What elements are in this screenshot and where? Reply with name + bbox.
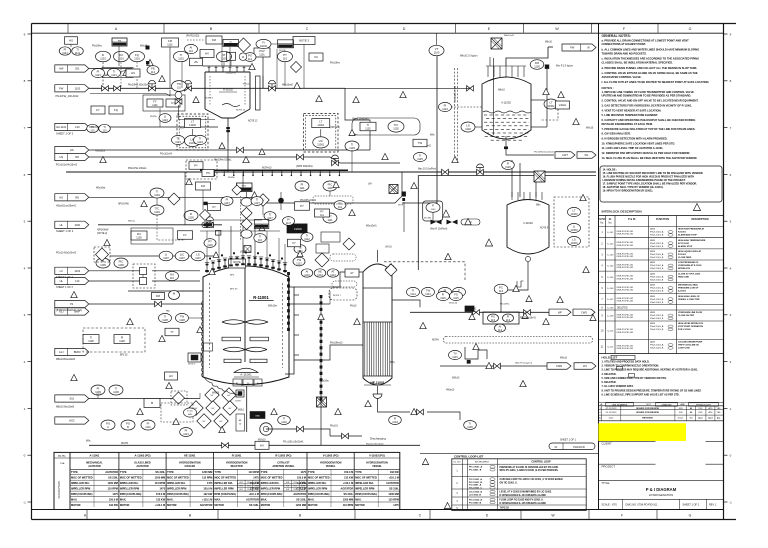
svg-text:TW: TW bbox=[180, 314, 185, 318]
svg-text:0708-PO-PID-101: 0708-PO-PID-101 bbox=[617, 276, 634, 278]
svg-text:FI: FI bbox=[394, 416, 397, 420]
svg-text:0708-PO-PID-101: 0708-PO-PID-101 bbox=[617, 231, 634, 233]
svg-text:TI: TI bbox=[412, 288, 415, 292]
svg-text:IMPELLER DIA.: IMPELLER DIA. bbox=[308, 481, 327, 485]
svg-text:RPM (COUPLING): RPM (COUPLING) bbox=[261, 492, 283, 496]
svg-text:PSwT-1001_A: PSwT-1001_A bbox=[650, 275, 664, 278]
svg-text:6. DELETED.: 6. DELETED. bbox=[602, 381, 617, 384]
svg-text:PI: PI bbox=[147, 421, 150, 425]
svg-text:HIGH HIGH LEVEL OF: HIGH HIGH LEVEL OF bbox=[678, 296, 700, 298]
svg-text:TI: TI bbox=[103, 125, 106, 129]
svg-text:1101: 1101 bbox=[178, 57, 184, 61]
svg-text:IL-108: IL-108 bbox=[607, 307, 614, 309]
svg-text:2. VENDOR TO CONFIRM NOZZLE OR: 2. VENDOR TO CONFIRM NOZZLE ORIENTATION. bbox=[602, 364, 660, 367]
svg-text:1113: 1113 bbox=[330, 273, 336, 277]
svg-text:FY: FY bbox=[153, 99, 157, 103]
svg-text:TV-11001_A: TV-11001_A bbox=[469, 484, 482, 487]
svg-text:4. DELETED.: 4. DELETED. bbox=[602, 373, 617, 376]
svg-text:11001: 11001 bbox=[317, 124, 324, 127]
svg-text:MBx103Gw10wt0: MBx103Gw10wt0 bbox=[56, 358, 76, 361]
svg-text:SHEET 1 OF 2: SHEET 1 OF 2 bbox=[56, 132, 74, 136]
svg-text:PGx101x04: PGx101x04 bbox=[160, 154, 173, 156]
svg-text:1475: 1475 bbox=[253, 477, 259, 480]
svg-text:FEED LINE: FEED LINE bbox=[678, 276, 689, 278]
svg-text:MECHANICAL: MECHANICAL bbox=[86, 461, 103, 464]
svg-text:MOC OF WETTED: MOC OF WETTED bbox=[167, 476, 189, 480]
svg-text:PSwT-1001_A: PSwT-1001_A bbox=[650, 325, 664, 328]
svg-text:U/A: U/A bbox=[368, 183, 372, 186]
svg-text:TI: TI bbox=[199, 136, 202, 140]
svg-text:RPM (COUPLING): RPM (COUPLING) bbox=[355, 492, 377, 496]
svg-text:11303: 11303 bbox=[570, 212, 578, 216]
svg-text:ROM: ROM bbox=[255, 482, 260, 484]
svg-text:+110.1 M: +110.1 M bbox=[343, 482, 353, 485]
svg-text:P1: P1 bbox=[70, 302, 74, 306]
svg-text:PY: PY bbox=[320, 209, 324, 213]
svg-text:PG: PG bbox=[126, 421, 130, 425]
svg-text:11001: 11001 bbox=[317, 142, 325, 146]
svg-text:HYDROGENATION: HYDROGENATION bbox=[226, 461, 248, 464]
svg-text:ZS: ZS bbox=[194, 60, 198, 64]
svg-text:XSwT-1001_B: XSwT-1001_B bbox=[650, 302, 664, 304]
svg-text:BPZ 03: BPZ 03 bbox=[230, 289, 238, 291]
svg-text:HS: HS bbox=[59, 155, 63, 159]
svg-text:P6x10: P6x10 bbox=[350, 306, 357, 308]
svg-text:V-11003 (PG): V-11003 (PG) bbox=[369, 454, 385, 458]
svg-text:M6x10: M6x10 bbox=[498, 90, 506, 92]
svg-text:W07Hr: W07Hr bbox=[150, 115, 157, 118]
svg-text:XSwT-1001_B: XSwT-1001_B bbox=[650, 329, 664, 331]
svg-text:1128: 1128 bbox=[162, 318, 168, 322]
svg-text:NO TAG: NO TAG bbox=[424, 217, 432, 220]
svg-text:FI: FI bbox=[507, 161, 510, 165]
svg-text:LSHH: LSHH bbox=[559, 103, 566, 107]
svg-text:G: G bbox=[689, 514, 692, 518]
svg-text:FI: FI bbox=[442, 292, 445, 296]
svg-text:111: 111 bbox=[338, 205, 342, 209]
svg-text:HIGH LEVEL INTERLOCK: HIGH LEVEL INTERLOCK bbox=[678, 323, 704, 325]
svg-text:TI: TI bbox=[419, 153, 422, 157]
svg-text:HS: HS bbox=[69, 39, 73, 43]
svg-text:TOWARD DRAIN AND NO POCKETS.: TOWARD DRAIN AND NO POCKETS. bbox=[602, 51, 648, 55]
svg-text:W6s10wt0: W6s10wt0 bbox=[282, 84, 293, 87]
svg-text:1114: 1114 bbox=[410, 292, 416, 296]
svg-text:BPZ 02: BPZ 02 bbox=[120, 355, 128, 357]
svg-text:NOTE 3: NOTE 3 bbox=[188, 364, 196, 366]
svg-text:No.: No. bbox=[600, 223, 604, 225]
svg-text:RD: RD bbox=[75, 155, 79, 159]
svg-text:10x25x41: 10x25x41 bbox=[226, 73, 237, 75]
svg-text:1108: 1108 bbox=[119, 340, 125, 343]
svg-text:1475: 1475 bbox=[207, 482, 213, 485]
svg-text:SS 316L: SS 316L bbox=[108, 477, 118, 480]
svg-text:RD: RD bbox=[75, 196, 79, 200]
svg-text:1107: 1107 bbox=[195, 256, 201, 260]
svg-text:MOC OF WETTED: MOC OF WETTED bbox=[355, 476, 377, 480]
svg-text:HG2: HG2 bbox=[69, 419, 75, 423]
svg-text:ASSOCIATED CONTROL VALVE.: ASSOCIATED CONTROL VALVE. bbox=[602, 75, 642, 79]
svg-text:IMPELLER DIA.: IMPELLER DIA. bbox=[71, 481, 90, 485]
svg-text:132 KW: 132 KW bbox=[344, 477, 354, 480]
svg-text:NOTE: NOTE bbox=[236, 401, 242, 403]
svg-text:Appd: Appd bbox=[708, 416, 712, 419]
svg-text:XY: XY bbox=[212, 205, 216, 209]
svg-text:HL: HL bbox=[60, 223, 64, 227]
svg-text:CWR: CWR bbox=[556, 364, 562, 368]
svg-text:111: 111 bbox=[320, 214, 324, 217]
svg-text:110: 110 bbox=[90, 129, 95, 133]
svg-text:PSwT-1001_A: PSwT-1001_A bbox=[650, 344, 664, 347]
svg-text:FM: FM bbox=[535, 61, 540, 65]
svg-text:(NOTE): (NOTE) bbox=[279, 50, 286, 52]
svg-text:ON TIC-11001_A.: ON TIC-11001_A. bbox=[500, 481, 518, 484]
svg-text:P6x10Hw: P6x10Hw bbox=[330, 63, 340, 65]
svg-text:1200 MM: 1200 MM bbox=[343, 498, 353, 501]
svg-text:NOTE 3: NOTE 3 bbox=[299, 39, 310, 43]
svg-text:PI: PI bbox=[97, 69, 100, 73]
svg-text:112: 112 bbox=[151, 70, 156, 74]
svg-text:P6x101: P6x101 bbox=[330, 426, 339, 428]
svg-text:110 RPM: 110 RPM bbox=[389, 498, 399, 501]
svg-text:150.0 M: 150.0 M bbox=[297, 477, 306, 480]
svg-text:1101: 1101 bbox=[167, 43, 173, 46]
svg-text:VESSEL: VESSEL bbox=[372, 465, 382, 468]
svg-text:I-101: I-101 bbox=[650, 240, 656, 242]
svg-text:CLIENT: CLIENT bbox=[602, 442, 613, 446]
svg-text:NOTE 12: NOTE 12 bbox=[236, 110, 246, 112]
svg-text:TYPE: TYPE bbox=[261, 470, 268, 474]
svg-text:11302: 11302 bbox=[547, 104, 555, 108]
svg-text:-1: -1 bbox=[729, 500, 732, 504]
svg-text:IMPELLER RPM: IMPELLER RPM bbox=[355, 487, 374, 491]
svg-text:113: 113 bbox=[506, 318, 511, 322]
svg-text:HV: HV bbox=[169, 374, 173, 378]
svg-text:FM: FM bbox=[201, 184, 206, 188]
svg-text:113: 113 bbox=[491, 318, 496, 322]
svg-text:0708-PO-PID-101: 0708-PO-PID-101 bbox=[617, 253, 634, 255]
svg-text:PI: PI bbox=[287, 217, 290, 221]
svg-text:0708-PO-PID-101: 0708-PO-PID-101 bbox=[617, 264, 634, 266]
svg-text:NOTE 9: NOTE 9 bbox=[540, 228, 549, 230]
svg-text:XY: XY bbox=[292, 241, 296, 245]
svg-text:5. LINE MOUNTED TEMPERATURE E: 5. LINE MOUNTED TEMPERATURE ELEMENT. bbox=[602, 113, 659, 117]
svg-text:PSwT-1001_A: PSwT-1001_A bbox=[650, 298, 664, 301]
svg-text:FM100: FM100 bbox=[294, 228, 302, 231]
svg-text:1115: 1115 bbox=[453, 296, 459, 300]
svg-text:TW: TW bbox=[418, 141, 423, 145]
svg-text:NOTES :: NOTES : bbox=[602, 86, 615, 90]
svg-text:LT: LT bbox=[572, 208, 575, 212]
svg-text:PIC: PIC bbox=[328, 182, 333, 186]
svg-text:A1J: A1J bbox=[59, 350, 64, 354]
svg-text:W6s10: W6s10 bbox=[212, 393, 220, 395]
svg-text:110 RPM: 110 RPM bbox=[202, 477, 212, 480]
svg-text:AGITATOR: AGITATOR bbox=[386, 482, 399, 485]
svg-text:201: 201 bbox=[75, 67, 80, 71]
svg-text:I-101: I-101 bbox=[650, 251, 656, 253]
svg-text:MOC OF WETTED: MOC OF WETTED bbox=[120, 476, 142, 480]
svg-text:110 RPM: 110 RPM bbox=[343, 504, 353, 507]
svg-text:ISSUED FOR REVIEW: ISSUED FOR REVIEW bbox=[636, 412, 660, 414]
svg-text:0708-PO-PID-101: 0708-PO-PID-101 bbox=[617, 314, 634, 316]
svg-text:(NOTE 2): (NOTE 2) bbox=[97, 232, 107, 235]
svg-text:VESSEL: VESSEL bbox=[326, 465, 336, 468]
svg-text:M6x10 2.0 kg/cm: M6x10 2.0 kg/cm bbox=[460, 56, 478, 58]
svg-text:TI: TI bbox=[367, 123, 370, 127]
svg-text:HOLD LIST: HOLD LIST bbox=[602, 356, 618, 360]
svg-text:V-11003: V-11003 bbox=[523, 221, 533, 225]
svg-text:MGk1: MGk1 bbox=[238, 410, 245, 412]
svg-text:150.0 M: 150.0 M bbox=[344, 471, 353, 474]
svg-text:M6x10x41: M6x10x41 bbox=[504, 35, 515, 37]
svg-text:SS 316L: SS 316L bbox=[389, 488, 399, 491]
svg-text:AE: AE bbox=[318, 269, 322, 273]
svg-text:PS: PS bbox=[206, 171, 210, 175]
svg-text:WF: WF bbox=[558, 311, 562, 315]
svg-text:0708-PO-PID-102: 0708-PO-PID-102 bbox=[617, 256, 634, 258]
svg-text:FOR V-11003: FOR V-11003 bbox=[678, 329, 691, 331]
svg-text:a. PROVIDE ALL DRAIN CONNECTIO: a. PROVIDE ALL DRAIN CONNECTIONS AT LOWE… bbox=[602, 38, 690, 42]
svg-text:13. SEAL FLUSH PLAN SHALL BE F: 13. SEAL FLUSH PLAN SHALL BE FINALIZED W… bbox=[602, 156, 698, 160]
svg-text:MOTOR: MOTOR bbox=[167, 503, 177, 507]
svg-text:HS: HS bbox=[131, 71, 135, 75]
svg-text:C10: C10 bbox=[75, 125, 80, 129]
svg-text:132 KW: 132 KW bbox=[156, 498, 166, 501]
svg-text:FIC-11001_B: FIC-11001_B bbox=[469, 482, 482, 484]
svg-text:App: App bbox=[717, 416, 720, 419]
svg-text:LIC: LIC bbox=[319, 139, 323, 143]
svg-text:1113: 1113 bbox=[317, 273, 323, 277]
svg-text:IL-106: IL-106 bbox=[607, 288, 614, 290]
svg-text:P6x10Hw 100wt1: P6x10Hw 100wt1 bbox=[214, 159, 232, 162]
svg-text:0708-PO-PID-102: 0708-PO-PID-102 bbox=[617, 278, 634, 280]
svg-text:1141: 1141 bbox=[62, 51, 68, 55]
svg-text:TI: TI bbox=[76, 47, 79, 51]
svg-text:ROM: ROM bbox=[301, 489, 306, 491]
svg-text:1115: 1115 bbox=[440, 296, 446, 300]
svg-text:AY: AY bbox=[350, 271, 354, 275]
svg-text:HWte10: HWte10 bbox=[446, 389, 455, 392]
svg-text:19. NPSH TO HYDROGENATION (R-1: 19. NPSH TO HYDROGENATION (R-11001). bbox=[603, 189, 654, 192]
svg-text:1106: 1106 bbox=[100, 263, 106, 267]
svg-text:TI: TI bbox=[180, 53, 183, 57]
svg-text:1124: 1124 bbox=[442, 107, 448, 111]
svg-text:113: 113 bbox=[498, 328, 503, 332]
svg-text:1125: 1125 bbox=[417, 157, 423, 161]
svg-text:1107: 1107 bbox=[163, 256, 169, 260]
svg-text:IMPELLER RPM: IMPELLER RPM bbox=[261, 487, 280, 491]
svg-text:PSwT-1001_A: PSwT-1001_A bbox=[650, 314, 664, 317]
svg-text:PW: PW bbox=[59, 87, 64, 91]
svg-text:I-101: I-101 bbox=[650, 342, 656, 344]
svg-text:ALARM AND STOP: ALARM AND STOP bbox=[678, 234, 697, 237]
svg-text:MOC OF WETTED: MOC OF WETTED bbox=[214, 476, 236, 480]
svg-text:R-11001: R-11001 bbox=[253, 295, 269, 300]
svg-text:TI: TI bbox=[90, 335, 93, 339]
svg-text:1128: 1128 bbox=[179, 318, 185, 322]
svg-text:9. LINE SCHEDULE, PIPE SUPPORT: 9. LINE SCHEDULE, PIPE SUPPORT AND VALVE… bbox=[602, 394, 680, 397]
svg-text:FI: FI bbox=[507, 314, 510, 318]
svg-text:I/L: I/L bbox=[609, 218, 612, 221]
svg-text:PSwT-1001_A: PSwT-1001_A bbox=[650, 253, 664, 256]
svg-text:ALARM, STOP: ALARM, STOP bbox=[678, 245, 693, 248]
svg-text:GENERAL NOTES:: GENERAL NOTES: bbox=[602, 34, 631, 38]
svg-text:SHEET 1 OF 1: SHEET 1 OF 1 bbox=[560, 438, 577, 441]
svg-text:IL-107: IL-107 bbox=[607, 299, 614, 301]
svg-text:W6s10w: W6s10w bbox=[320, 381, 329, 383]
svg-text:LOW FLOW: LOW FLOW bbox=[678, 348, 690, 350]
svg-text:R-11002: R-11002 bbox=[223, 88, 233, 92]
svg-text:10: 10 bbox=[239, 424, 241, 426]
svg-text:INTERLOCK DESCRIPTION: INTERLOCK DESCRIPTION bbox=[602, 210, 643, 214]
svg-text:ISSUED FOR REVIEW: ISSUED FOR REVIEW bbox=[636, 408, 660, 410]
svg-text:XSwT-1001_B: XSwT-1001_B bbox=[650, 268, 664, 270]
svg-text:1114: 1114 bbox=[425, 292, 431, 296]
svg-text:CASCADE LOOP TIC-11001 / FIC-1: CASCADE LOOP TIC-11001 / FIC-11001_A TV-… bbox=[500, 478, 564, 481]
svg-text:1112: 1112 bbox=[304, 237, 310, 241]
svg-text:1100: 1100 bbox=[434, 51, 440, 55]
svg-text:A-11001: A-11001 bbox=[240, 373, 252, 377]
svg-text:INSTRUMENT: INSTRUMENT bbox=[475, 462, 490, 464]
svg-text:BMP2: BMP2 bbox=[74, 350, 82, 354]
svg-text:G: G bbox=[689, 27, 692, 31]
svg-text:MOC OF WETTED: MOC OF WETTED bbox=[71, 476, 93, 480]
svg-text:f. ALL FLOW OUTLET LINES TO BE: f. ALL FLOW OUTLET LINES TO BE ROUTED TO… bbox=[602, 80, 710, 84]
svg-text:113: 113 bbox=[499, 289, 504, 293]
svg-text:110: 110 bbox=[102, 129, 107, 133]
svg-text:1112: 1112 bbox=[296, 262, 302, 266]
svg-text:HSw101w: HSw101w bbox=[95, 151, 106, 153]
svg-text:VESSEL V-11002 TRIP: VESSEL V-11002 TRIP bbox=[678, 299, 700, 301]
svg-text:IL-109: IL-109 bbox=[607, 316, 614, 318]
svg-text:SHEET 1 OF 2: SHEET 1 OF 2 bbox=[56, 275, 74, 279]
svg-text:W1: W1 bbox=[585, 153, 589, 157]
svg-text:GMD: GMD bbox=[255, 416, 260, 418]
svg-text:Drawn: Drawn bbox=[678, 416, 683, 419]
svg-text:W07Hr: W07Hr bbox=[432, 339, 439, 342]
svg-text:10x41: 10x41 bbox=[470, 309, 477, 311]
svg-text:PI: PI bbox=[185, 428, 188, 432]
svg-text:AT: AT bbox=[331, 269, 335, 273]
svg-text:DESCRIPTION: DESCRIPTION bbox=[691, 218, 708, 221]
svg-text:1117: 1117 bbox=[286, 221, 292, 225]
svg-text:1111: 1111 bbox=[327, 218, 333, 222]
svg-text:P-110: P-110 bbox=[187, 411, 193, 413]
svg-text:FI: FI bbox=[262, 40, 265, 44]
svg-text:PY: PY bbox=[300, 204, 304, 208]
svg-text:AI: AI bbox=[499, 324, 502, 328]
svg-text:MAX.: MAX. bbox=[308, 497, 315, 501]
svg-text:HIGH HIGH PRESSURE AT: HIGH HIGH PRESSURE AT bbox=[678, 228, 705, 231]
svg-text:PT: PT bbox=[283, 53, 287, 57]
svg-text:U/A 10: U/A 10 bbox=[385, 246, 393, 249]
svg-text:XSwT-1001_B: XSwT-1001_B bbox=[650, 246, 664, 248]
svg-text:AI: AI bbox=[306, 269, 309, 273]
svg-text:AT R-11001: AT R-11001 bbox=[678, 242, 690, 245]
svg-text:TI: TI bbox=[306, 233, 309, 237]
svg-text:CWT: CWT bbox=[562, 153, 568, 157]
svg-text:0708-PO-PID-102: 0708-PO-PID-102 bbox=[617, 234, 634, 236]
svg-text:LT: LT bbox=[319, 120, 322, 124]
svg-text:W6s10: W6s10 bbox=[140, 46, 148, 48]
svg-text:XSwT-1001_B: XSwT-1001_B bbox=[650, 348, 664, 350]
svg-text:0708-PO-PID-102: 0708-PO-PID-102 bbox=[617, 317, 634, 319]
svg-text:1123: 1123 bbox=[197, 140, 203, 144]
svg-text:7. HL-11001 VENDOR DATA.: 7. HL-11001 VENDOR DATA. bbox=[602, 385, 635, 388]
svg-text:12. DEMISTER PAD WITH SPRAY NO: 12. DEMISTER PAD WITH SPRAY NOZZLE AS PE… bbox=[602, 151, 691, 155]
svg-text:FLOW LOOP FIC-11003 AND FV-110: FLOW LOOP FIC-11003 AND FV-11003_A. bbox=[500, 499, 544, 502]
svg-text:PSwT-1001_A: PSwT-1001_A bbox=[650, 242, 664, 245]
svg-text:AGITATOR: AGITATOR bbox=[341, 488, 354, 491]
svg-text:W6s10: W6s10 bbox=[586, 128, 594, 130]
svg-text:IL-101: IL-101 bbox=[607, 232, 614, 234]
svg-text:110 RPM: 110 RPM bbox=[249, 471, 259, 474]
svg-text:INTERLOCK: INTERLOCK bbox=[678, 268, 691, 270]
svg-text:1113: 1113 bbox=[304, 273, 310, 277]
svg-text:dia. No.: dia. No. bbox=[58, 455, 66, 457]
svg-text:TI: TI bbox=[115, 386, 118, 390]
svg-text:AGITATOR: AGITATOR bbox=[200, 504, 213, 507]
svg-text:MGk10w: MGk10w bbox=[268, 306, 277, 308]
svg-text:HYDROGENATION: HYDROGENATION bbox=[179, 461, 201, 464]
svg-text:PKD: PKD bbox=[699, 408, 704, 410]
svg-text:ROM: ROM bbox=[255, 489, 260, 491]
svg-text:1200 MM: 1200 MM bbox=[296, 504, 306, 507]
svg-text:3. GAS DETECTORS FOR HYDROGEN: 3. GAS DETECTORS FOR HYDROGEN LOCATED IN… bbox=[602, 103, 693, 107]
svg-text:A-11001: A-11001 bbox=[678, 290, 687, 293]
svg-text:PSV: PSV bbox=[242, 186, 247, 188]
svg-text:IL-103: IL-103 bbox=[607, 254, 614, 256]
svg-text:SHEET 1 OF 2: SHEET 1 OF 2 bbox=[56, 285, 74, 289]
svg-text:TE: TE bbox=[176, 136, 180, 140]
svg-text:MOTOR: MOTOR bbox=[71, 503, 81, 507]
svg-text:S01: S01 bbox=[69, 397, 74, 401]
svg-text:UY: UY bbox=[171, 101, 175, 105]
svg-text:1131: 1131 bbox=[183, 432, 189, 436]
svg-text:P6x10Hw: P6x10Hw bbox=[92, 46, 102, 48]
svg-text:1121: 1121 bbox=[111, 73, 117, 77]
svg-text:AI: AI bbox=[190, 45, 193, 49]
svg-text:COOLING WATER PUMP: COOLING WATER PUMP bbox=[678, 341, 703, 344]
svg-text:110 RPM: 110 RPM bbox=[108, 488, 118, 491]
svg-text:1106: 1106 bbox=[118, 263, 124, 267]
svg-text:TI: TI bbox=[351, 142, 354, 146]
svg-text:1475: 1475 bbox=[300, 471, 306, 474]
svg-text:FUNCTION: FUNCTION bbox=[656, 218, 669, 221]
svg-text:TI: TI bbox=[269, 212, 272, 216]
svg-text:W6s10x41: W6s10x41 bbox=[366, 226, 377, 228]
svg-text:TYPE: TYPE bbox=[120, 470, 127, 474]
svg-text:A-11002 (PG): A-11002 (PG) bbox=[134, 454, 150, 458]
svg-text:PIC: PIC bbox=[119, 259, 124, 263]
svg-text:PGx1101x10x25x41: PGx1101x10x25x41 bbox=[283, 442, 304, 444]
svg-text:1104: 1104 bbox=[154, 210, 160, 214]
svg-text:1107: 1107 bbox=[179, 256, 185, 260]
svg-text:C: C bbox=[306, 27, 309, 31]
svg-text:1103: 1103 bbox=[349, 146, 355, 150]
svg-text:1111: 1111 bbox=[299, 186, 305, 190]
svg-text:CONNECTIONS AT HIGHEST POINT.: CONNECTIONS AT HIGHEST POINT. bbox=[602, 42, 647, 46]
svg-text:TRIP P-11001 A/B ON: TRIP P-11001 A/B ON bbox=[678, 344, 699, 347]
svg-text:110: 110 bbox=[75, 279, 80, 283]
svg-text:1102: 1102 bbox=[393, 127, 399, 131]
svg-text:1101: 1101 bbox=[134, 57, 140, 61]
svg-text:MOTOR: MOTOR bbox=[308, 503, 318, 507]
svg-text:HIGH HIGH TEMPERATURE: HIGH HIGH TEMPERATURE bbox=[678, 239, 706, 242]
svg-text:W6s10: W6s10 bbox=[560, 358, 568, 360]
svg-text:HS: HS bbox=[170, 272, 174, 276]
svg-text:TITLE: TITLE bbox=[602, 481, 610, 485]
